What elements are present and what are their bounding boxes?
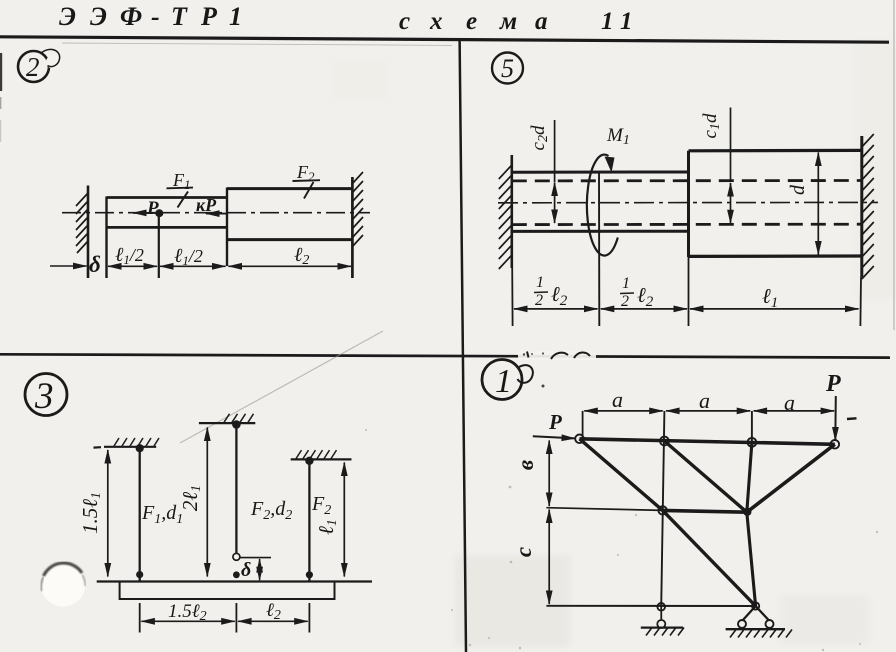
svg-text:2: 2 [26,52,40,82]
svg-text:5: 5 [501,54,514,83]
svg-text:a: a [699,388,710,413]
svg-text:в: в [513,460,538,470]
svg-text:кР: кР [196,195,217,215]
svg-text:a: a [612,387,623,412]
svg-text:2: 2 [621,293,629,310]
svg-text:P: P [146,198,159,219]
svg-text:a: a [784,390,795,415]
svg-text:1: 1 [495,363,512,400]
svg-text:δ: δ [89,252,101,277]
svg-text:P: P [825,371,841,397]
svg-text:ℓ1/2: ℓ1/2 [174,245,203,268]
svg-text:c: c [511,547,536,557]
svg-text:2: 2 [535,292,543,309]
svg-text:d: d [787,184,809,195]
svg-text:1: 1 [622,275,630,292]
svg-text:δ: δ [241,559,251,581]
svg-text:1: 1 [536,274,544,291]
svg-text:ℓ1/2: ℓ1/2 [115,244,144,267]
svg-text:P: P [548,410,562,434]
svg-text:3: 3 [34,376,54,417]
